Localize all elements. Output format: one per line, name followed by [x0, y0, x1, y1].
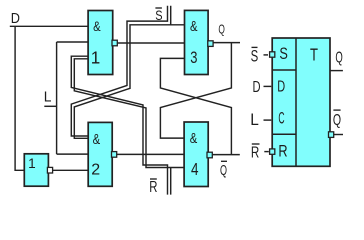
wire gate3 output cross to gate4 input	[160, 43, 231, 139]
wire Sbar stub B to gate 3 input and gate 2 input 2	[74, 6, 184, 139]
svg-text:3: 3	[190, 48, 197, 67]
svg-text:1: 1	[28, 156, 36, 171]
inverter U5 output bubble	[47, 167, 52, 173]
block Rbar input bubble	[270, 149, 275, 154]
gate U2 output bubble	[112, 152, 117, 158]
svg-text:S: S	[279, 45, 288, 63]
svg-text:D: D	[277, 79, 285, 96]
svg-text:Q: Q	[218, 21, 225, 36]
wire gate4 output cross to gate3 input	[160, 58, 231, 154]
node Qbar overline	[221, 160, 227, 162]
node Rbar overline	[150, 178, 157, 180]
wire D horizontal to gate 1	[10, 25, 88, 27]
wire gate3 output Q stub	[213, 42, 240, 44]
wire Rbar block stub dash	[264, 151, 269, 153]
wire L to gate 2	[57, 153, 89, 155]
svg-text:T: T	[310, 46, 318, 65]
svg-text:&: &	[190, 131, 198, 147]
gate U2 (NAND 2) body	[88, 122, 112, 186]
gate U4 output bubble	[207, 152, 212, 158]
wire L block stub dash	[264, 119, 272, 121]
svg-text:S: S	[251, 48, 259, 66]
svg-text:R: R	[278, 142, 287, 161]
gate U3 output bubble	[208, 41, 213, 47]
svg-text:R: R	[149, 179, 157, 196]
gate U1 (NAND 1) body	[88, 11, 113, 75]
inverter U5 box	[24, 154, 48, 186]
svg-text:Q: Q	[335, 50, 342, 67]
svg-text:D: D	[11, 10, 20, 27]
wire gate1 output to gate3	[117, 42, 184, 44]
wire D branch down to inverter input	[15, 26, 24, 170]
gate U1 output bubble	[112, 40, 117, 46]
block symbol T outer body	[272, 38, 330, 166]
gate U4 (NAND 4) body	[184, 122, 208, 187]
svg-text:1: 1	[91, 49, 101, 68]
wire gate2 output to gate4	[117, 153, 184, 155]
svg-text:&: &	[93, 132, 101, 148]
wire L to gate 1	[57, 41, 89, 43]
wire Sbar block stub dash	[264, 54, 269, 56]
wire L vertical trunk	[56, 42, 58, 154]
block Sbar input bubble	[270, 52, 275, 57]
svg-text:Q: Q	[220, 163, 227, 179]
node Sbar overline	[155, 7, 162, 9]
block symbol row line under C	[272, 133, 296, 135]
svg-text:D: D	[253, 79, 261, 96]
wire L stub	[44, 105, 56, 107]
wire block Qbar output stub	[334, 134, 343, 136]
svg-text:R: R	[251, 145, 259, 162]
wire gate4 output Qbar stub	[212, 154, 240, 156]
svg-text:&: &	[93, 19, 101, 35]
wire Rbar stub A up-left to gate 1 input 3	[71, 56, 167, 194]
svg-text:Q: Q	[333, 112, 341, 129]
block Qbar output bubble	[329, 132, 334, 138]
gate U3 (NAND 3) body	[185, 10, 209, 74]
block symbol row line under S	[272, 69, 296, 71]
svg-text:2: 2	[91, 162, 100, 179]
node Qbar block overline	[333, 109, 340, 111]
svg-text:&: &	[190, 19, 198, 35]
wire inverter output to gate 2	[53, 169, 89, 171]
svg-text:C: C	[278, 110, 284, 128]
svg-text:4: 4	[191, 159, 199, 179]
wire Rbar stub B to gate 4 input and gate 1 input 4	[74, 59, 184, 195]
block symbol inner divider	[295, 38, 297, 166]
wire block Q output stub	[330, 70, 343, 72]
node Rbar block overline	[252, 143, 260, 145]
wire Sbar stub A down-left to gate 2 input 1	[71, 6, 167, 136]
svg-text:L: L	[250, 111, 259, 129]
svg-text:L: L	[44, 89, 52, 105]
wire D block stub dash	[264, 85, 272, 87]
node Sbar block overline	[252, 46, 258, 48]
